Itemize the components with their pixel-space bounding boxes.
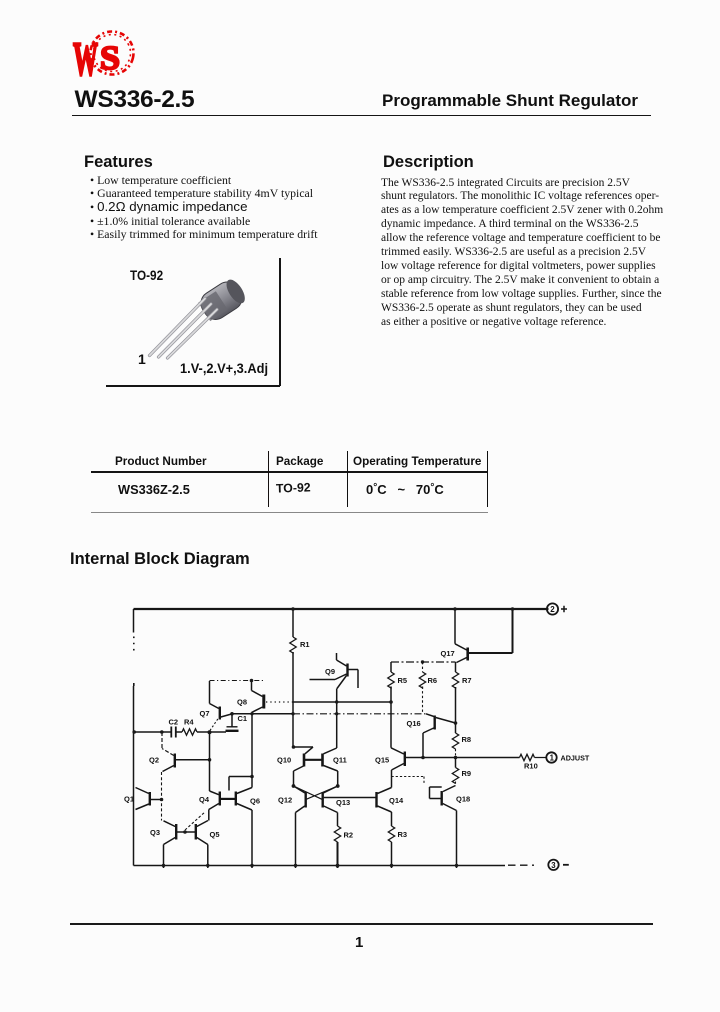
svg-text:Q8: Q8 [237,698,247,707]
svg-text:R2: R2 [344,831,354,840]
wire Q4 base loop [229,777,252,791]
transistor Q10 [277,747,313,786]
svg-text:Q11: Q11 [333,756,347,765]
Features [84,153,153,172]
wire node line A (y=702) [266,701,293,703]
resistor R6 [419,662,437,714]
transistor Q5 [196,821,220,869]
junction Q2 base / Q4 collector line [208,758,212,762]
transistor Q16 [407,714,456,758]
wire Q15 emitter dashes [392,777,425,784]
svg-text:Q7: Q7 [200,709,210,718]
svg-text:R3: R3 [398,830,408,839]
page number [355,934,363,951]
capacitor C1 [226,714,248,731]
junction Q1 base [160,798,164,802]
transistor Q1 [124,788,161,810]
svg-text:Q12: Q12 [278,796,292,805]
svg-text:W: W [73,33,98,86]
resistor R10 [520,754,547,770]
svg-text:Q3: Q3 [150,828,160,837]
wire input net (y=732) [134,731,227,733]
svg-text:Q5: Q5 [210,830,220,839]
wire top rail V+ [134,608,549,610]
resistor R5 [388,662,407,688]
terminal 2 (V+) [547,603,567,614]
svg-text:1: 1 [550,754,555,763]
schematic placeholder [100,595,610,885]
junction Q16 collector / R7-R8 [454,721,458,725]
wire R1 to Q10 [293,652,313,747]
resistor R2 [334,826,353,868]
transistor Q15 [375,687,520,788]
terminal 3 (V-) [548,860,569,870]
table [115,455,207,468]
junction cross-couple right node [336,784,340,788]
terminal 1 ADJUST [546,752,590,762]
wire cross couple X [294,786,338,799]
transistor Q7 [200,681,232,731]
wire left rail [133,609,135,633]
footer rule [70,923,653,925]
svg-text:Q10: Q10 [277,756,291,765]
TO-92 figure box lines [279,258,281,386]
node dot R1 top [291,607,295,611]
wire Q13 collector diag [324,786,338,793]
transistor Q12 [278,792,306,868]
wire base tie to Q4 emitter [185,812,206,831]
junction top rail Q17c [453,607,457,611]
svg-text:Q18: Q18 [456,795,470,804]
svg-text:Q17: Q17 [441,649,455,658]
transistor Q18 [430,786,471,869]
svg-text:S: S [100,40,120,77]
svg-text:Q14: Q14 [389,796,404,805]
svg-text:C2: C2 [169,718,179,727]
svg-text:Q1: Q1 [124,795,134,804]
junction R1/Q10 collector [292,745,296,749]
svg-text:Q4: Q4 [199,795,210,804]
transistor Q6 [236,714,260,868]
wire base node y=662 [391,661,456,663]
junction adjust/R8R9 [454,756,458,760]
svg-text:R6: R6 [428,676,438,685]
transistor Q9 [310,653,359,689]
wire bottom rail V- [134,865,506,867]
resistor R4 [182,718,197,736]
junction adjust/Q16e [421,756,425,760]
transistor Q11 [323,748,347,786]
svg-text:Q2: Q2 [149,756,159,765]
junction Q8 collector [250,679,254,683]
header rule [72,115,651,117]
svg-text:Q13: Q13 [336,798,350,807]
resistor R3 [388,826,407,868]
Description [383,153,474,172]
transistor Q3 [150,821,176,868]
junction node R4/Q7 base [208,730,212,734]
logo [68,26,144,86]
svg-text:R5: R5 [398,676,408,685]
wire node line B (y=713.8) [232,713,293,715]
junction R5 bottom/lineA [389,700,393,704]
wire Q2e-Q1b-Q3c dash [161,772,163,821]
wire Q12 collector diag [294,786,305,793]
transistor Q14 [377,788,405,827]
resistor R1 [290,609,310,653]
svg-text:R10: R10 [524,762,538,771]
junction Q9e/lineB [335,712,338,715]
wire Q7/Q8 collector dash-dot [210,680,266,682]
junction R1/line A [291,712,294,715]
wire Q4/Q6 tie [221,798,235,800]
junction C1 top [230,712,234,716]
svg-text:R9: R9 [462,769,472,778]
resistor R8 [452,723,471,758]
resistor R9 [452,758,471,786]
svg-text:Q15: Q15 [375,756,389,765]
svg-text:R4: R4 [184,718,194,727]
junction bottom rail nodes [162,864,458,868]
junction Q3/Q5 base [183,830,187,834]
TO-92 figure [130,267,163,283]
svg-text:3: 3 [551,861,556,870]
capacitor C2 [169,718,179,738]
junction loop/Q6 collector [250,775,254,779]
junction Q9e/lineA [335,700,338,703]
transistor Q4 [199,791,220,821]
transistor Q2 [149,732,209,772]
svg-text:ADJUST: ADJUST [561,754,590,763]
svg-text:Q16: Q16 [407,719,421,728]
Internal Block Diagram heading [70,550,250,569]
junction left rail input [132,730,136,734]
svg-text:2: 2 [550,605,555,614]
resistor R7 [452,662,471,723]
junction C2/Q2 collector [160,730,164,734]
wire Q3/Q5 base tie [177,831,195,833]
junction R6 top [421,660,424,663]
transistor Q13 [323,792,376,826]
svg-text:R1: R1 [300,640,310,649]
svg-text:R8: R8 [462,735,472,744]
wire Q10/Q11 base tie [304,759,323,761]
wire Q4 collector vertical [209,732,211,791]
wire Q9 emitter to Q11 [336,689,338,749]
junction top rail Q17e [511,607,515,611]
svg-text:R7: R7 [462,676,472,685]
svg-text:C1: C1 [238,714,248,723]
transistor Q17 [441,609,513,663]
main title [75,86,195,114]
svg-text:Q6: Q6 [250,797,260,806]
junction Q6 collector top [250,712,253,715]
svg-text:Q9: Q9 [325,667,335,676]
junction cross-couple left node [292,784,296,788]
transistor Q8 [237,681,264,714]
